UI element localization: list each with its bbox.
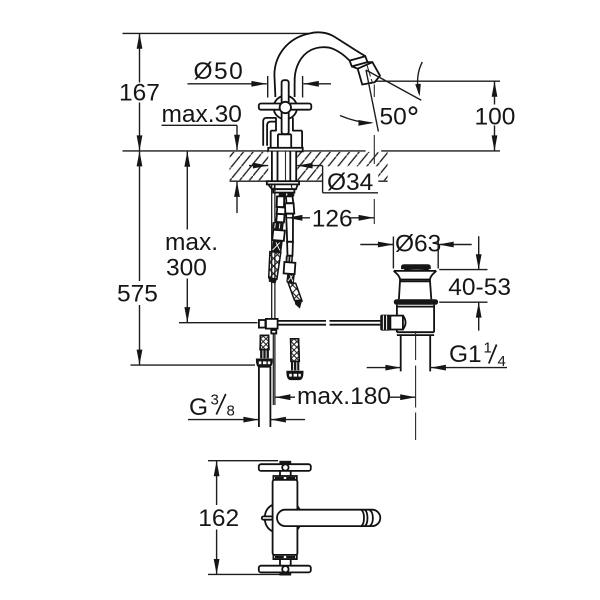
handle hub inner circle (280, 102, 291, 113)
top view lever pin (262, 516, 273, 519)
spout outline (274, 32, 365, 97)
dim 167 arrows (137, 33, 143, 48)
svg-text:Ø50: Ø50 (194, 58, 245, 85)
wire top extension line of spout (123, 32, 310, 34)
right hose lower stub braid (291, 339, 300, 362)
dim max.300 vertical line (186, 151, 188, 322)
dim max.30 leader (162, 125, 238, 213)
top view spout tube (277, 510, 380, 526)
top view lower screw (282, 566, 288, 572)
svg-text:1: 1 (484, 340, 492, 357)
left hose tube upper (277, 196, 285, 207)
shank thread lines (272, 151, 296, 181)
svg-text:max.30: max.30 (162, 101, 242, 128)
left hose tube mid (276, 214, 284, 223)
svg-text:G: G (189, 394, 208, 421)
rod clamp small (259, 320, 266, 328)
dim 126 line and arrows (287, 217, 374, 219)
left hose crimp 2 (272, 241, 283, 253)
svg-text:575: 575 (117, 280, 158, 307)
top view upper screw (282, 464, 288, 470)
right hose braid (288, 283, 302, 301)
svg-text:8: 8 (227, 403, 235, 420)
spout fill (274, 32, 365, 97)
hose top crimp right (287, 193, 294, 197)
drain flange seal (394, 299, 438, 305)
angle line B stream direction (366, 70, 378, 132)
svg-text:Ø63: Ø63 (395, 231, 441, 258)
svg-text:3: 3 (211, 392, 219, 409)
pop-up lever (263, 118, 276, 146)
drain ball housing arc (403, 316, 406, 330)
drain tailpipe (401, 335, 431, 371)
svg-text:167: 167 (119, 79, 160, 106)
svg-text:100: 100 (475, 103, 516, 130)
washer under deck (267, 181, 299, 184)
top view upper cross bar (259, 464, 311, 471)
top view 162 extension lines (208, 461, 281, 575)
angle line A spout axis (366, 70, 421, 100)
top view upper stem walls (280, 471, 291, 476)
cartridge inner box (278, 134, 291, 148)
left hose break end (269, 278, 277, 284)
right hose nipple box (285, 203, 294, 213)
dim 100 vertical line (494, 81, 496, 151)
angle arc right with arrow (418, 62, 423, 94)
wire 100 top extension line (375, 80, 501, 82)
dim max.300 arrows (184, 151, 190, 166)
svg-text:300: 300 (166, 254, 207, 281)
left stub nut (257, 359, 272, 367)
centerline faucet axis (285, 151, 287, 196)
svg-text:50: 50 (380, 103, 407, 130)
top view body (273, 480, 298, 555)
right hose crimp 1 (286, 255, 294, 262)
svg-text:162: 162 (198, 505, 239, 532)
svg-text:G1: G1 (449, 341, 482, 368)
dim max.180 arrows (275, 396, 416, 398)
right hose tube upper (286, 196, 293, 203)
right hose union box (284, 262, 296, 274)
dim O34 leader and arrows (249, 166, 378, 193)
dim 575 arrows (137, 151, 143, 166)
drain upper cylinder (399, 280, 431, 300)
dim 162 vertical line (216, 461, 218, 575)
right stub crimp (291, 361, 299, 371)
dim max.300 bottom ref and rod left line (179, 322, 258, 324)
pop-up pull rod upper (272, 184, 275, 319)
deck hatching left (230, 152, 269, 180)
dim 167 vertical line (139, 33, 141, 150)
dim G1 1/4 arrows (367, 367, 507, 369)
top view lower stem block (279, 572, 291, 575)
left stub G3/8 pipe (259, 367, 271, 427)
dim G3/8 arrows (188, 419, 305, 421)
svg-text:Ø34: Ø34 (327, 169, 373, 196)
dim O50 extension lines (268, 76, 303, 98)
centerline through spout outlet (373, 85, 375, 225)
svg-text:max.180: max.180 (297, 383, 391, 410)
top view lower plate (273, 555, 296, 559)
drain bottom nut lines (397, 332, 434, 335)
angle arc left with arrow (340, 116, 372, 123)
base plate (268, 148, 303, 152)
left hose braid (269, 252, 281, 280)
left stub crimp (260, 350, 269, 359)
mounting nut (268, 184, 298, 189)
spout aerator tip block (358, 62, 380, 84)
drain knob knurled (380, 315, 390, 331)
top view upper stem block (279, 461, 291, 465)
spout axis centerline in tip (367, 65, 373, 84)
spout aerator band (350, 56, 368, 66)
svg-text:max.: max. (165, 229, 218, 256)
top view lower stem walls (280, 559, 291, 566)
top view hex bits (297, 504, 301, 510)
pull rod lower (273, 334, 275, 406)
drain body shoulder (394, 271, 437, 280)
valve body housing (271, 131, 302, 148)
handle cross bar (259, 104, 312, 110)
left hose connector box (272, 230, 285, 241)
dim 575 vertical line (139, 151, 141, 365)
top view lower cross bar (259, 566, 311, 573)
drain plug cap (402, 265, 431, 269)
top view lever arc (265, 505, 273, 532)
deck hatching right (297, 152, 387, 180)
right hose tube long (286, 214, 293, 242)
collar (273, 189, 294, 192)
handle hub outer circle (274, 96, 297, 119)
valve neck walls (276, 118, 293, 132)
right hose crimp 2 (286, 274, 295, 283)
drain knob housing (390, 316, 403, 330)
handle vertical spoke (282, 80, 289, 134)
pull rod knob (271, 330, 276, 334)
spout tube gap edges (352, 62, 373, 69)
drain plug lip (405, 269, 429, 270)
top view upper plate (273, 476, 296, 480)
drain centerline (415, 331, 417, 440)
white cutout for O34 label (323, 166, 379, 181)
dim O63 lines and arrows (360, 244, 471, 246)
left hose crimp 1 (272, 222, 284, 230)
dim O63 extension lines (393, 237, 438, 269)
svg-text:126: 126 (312, 206, 353, 233)
left hose lower stub braid (260, 335, 269, 349)
drain lower body (397, 305, 434, 332)
right stub nut (287, 372, 303, 380)
svg-text:40-53: 40-53 (448, 274, 511, 301)
horizontal pop-up rod (278, 321, 381, 325)
dim 40-53 arrows (478, 236, 480, 330)
dim 40-53 ref lines (439, 270, 487, 303)
rod clamp large (266, 319, 278, 329)
wire bottom reference line 575 (131, 364, 256, 366)
wire deck surface line (123, 150, 501, 152)
hose top crimp left (279, 193, 286, 197)
shank white hole (268, 152, 297, 182)
right hose break end (294, 300, 302, 308)
top view tube bands (362, 510, 373, 526)
left hose nipple box (277, 207, 286, 214)
right hose tube seg2 (287, 242, 293, 256)
dim O50 line and arrows (188, 83, 332, 85)
wire deck underside line (230, 180, 388, 182)
